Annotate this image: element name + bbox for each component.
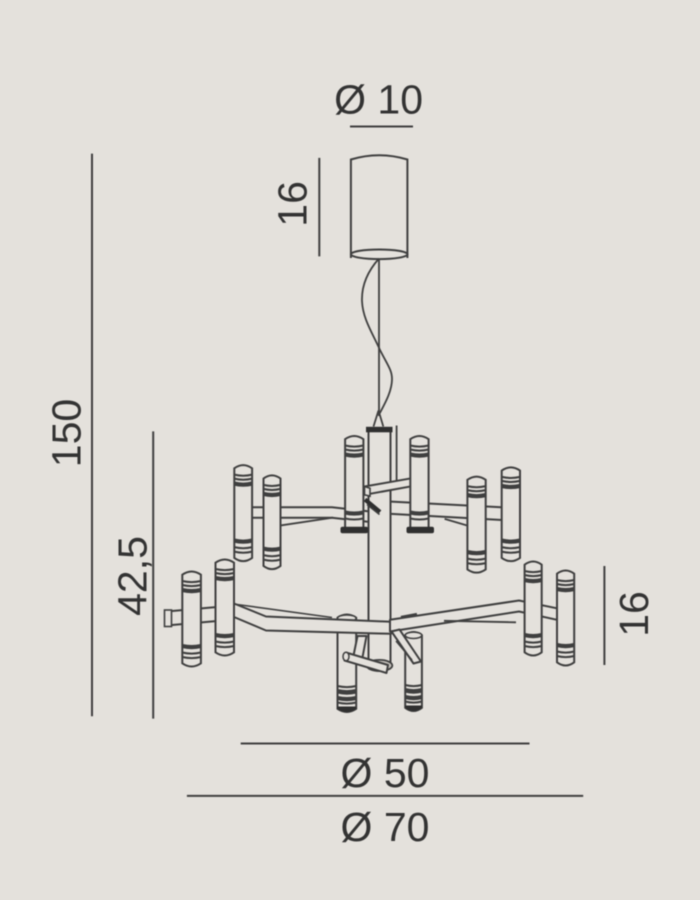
dimension label 150 (overall height) [44, 399, 90, 467]
svg-text:150: 150 [44, 399, 90, 467]
lower tier left arm [234, 604, 391, 634]
lower front stub arm (down-left) [343, 652, 388, 673]
svg-text:Ø 10: Ø 10 [334, 77, 423, 123]
upper tier tube U4 (left inner) [264, 475, 281, 569]
upper rear arm stub (dark, down-right) [365, 500, 380, 515]
stem bottom end ellipse [367, 660, 393, 671]
lower tier tube L2 (far left inner) [216, 560, 235, 656]
lower left arm top face edge [237, 605, 332, 618]
upper tier tube U2 (center right) [410, 436, 428, 531]
svg-text:16: 16 [270, 181, 316, 227]
lower tier right arm [390, 601, 557, 632]
dimension line 16 (canopy height) [318, 158, 320, 257]
upper tier tube U5 (right outer) [502, 467, 520, 561]
tube U2 dark socket flange [407, 527, 435, 533]
dimension line for Ø 70 [187, 795, 583, 797]
suspension cable (straight) [378, 259, 380, 417]
lower tier tube R2 (far right outer) [557, 571, 574, 666]
svg-text:Ø 50: Ø 50 [341, 750, 430, 796]
lower tier down tube D2 (center right) [405, 632, 422, 711]
upper tier tube U1 (center left) [345, 436, 363, 531]
upper rear arm (diagonal, in front of stem) [365, 478, 413, 496]
stem top cap (dark) [366, 427, 393, 433]
upper tier tube U6 (right inner) [467, 477, 485, 573]
upper right arm underside edge [445, 519, 477, 528]
lower left stub end cap [165, 610, 172, 627]
dimension label 16 (canopy height) [270, 181, 316, 227]
lower tier tube R1 (far right inner) [525, 562, 542, 656]
upper tier right arm [389, 502, 512, 521]
lower right arm underside edge [444, 621, 516, 623]
ceiling canopy cylinder [351, 155, 408, 259]
svg-text:16: 16 [611, 591, 657, 637]
svg-text:Ø 70: Ø 70 [341, 804, 430, 850]
tube U1 dark socket flange [341, 527, 369, 533]
dimension line 150 (overall height) [91, 154, 93, 717]
dimension label 16 (tube length, right) [611, 591, 657, 637]
central stem tube [368, 430, 392, 663]
dimension label Ø 50 (upper ring diameter) [341, 750, 430, 796]
dimension line for Ø 10 [350, 126, 413, 128]
suspension cable (spiral wire) [362, 259, 392, 414]
dimension label 42,5 (body height) [110, 536, 156, 616]
svg-text:42,5: 42,5 [110, 536, 156, 616]
dimension line for Ø 50 [241, 743, 530, 745]
lower tier far-left stub arm [167, 606, 235, 626]
dimension line 42,5 (body height) [152, 431, 154, 718]
dimension label Ø 70 (lower ring diameter) [341, 804, 430, 850]
dimension line 16 (tube length, right) [603, 566, 605, 665]
rear tube edge behind stem [396, 426, 398, 483]
lower tier down tube D1 (center left) [338, 615, 357, 713]
lower tier tube L1 (far left outer) [182, 572, 201, 667]
lower rear arm nub (above right bar) [401, 615, 417, 618]
lower rear arm (down-left, behind stem) [353, 636, 367, 660]
dimension label Ø 10 (canopy diameter) [334, 77, 423, 123]
lower front stub arm (down-right) [392, 630, 422, 664]
cable loop at stem [374, 411, 384, 427]
upper tier tube U3 (left outer) [234, 465, 252, 561]
upper tier left arm [252, 507, 370, 522]
upper left arm underside edge [279, 518, 333, 526]
